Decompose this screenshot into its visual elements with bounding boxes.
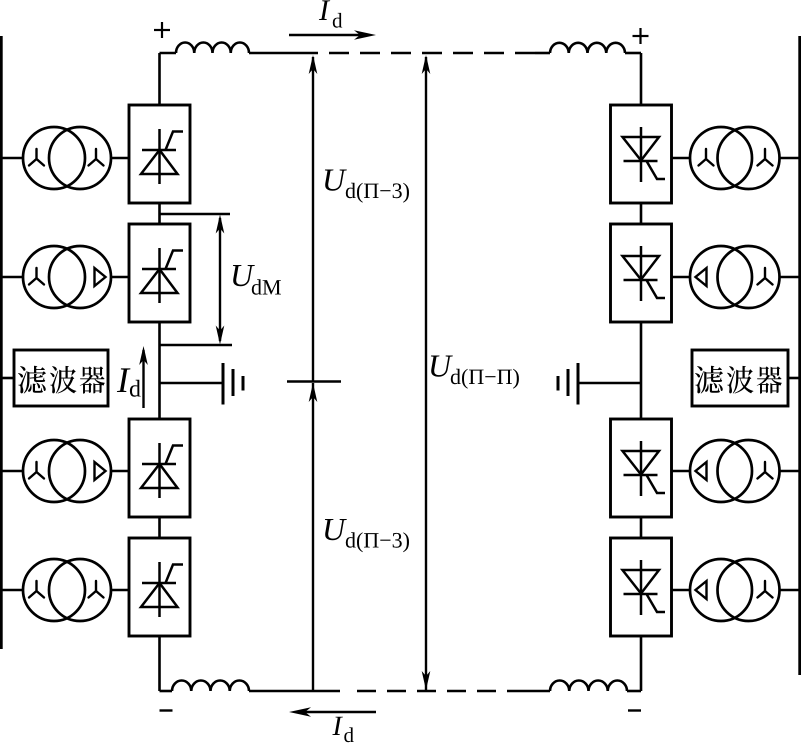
wire: V2 to V3 (neutral point) <box>158 321 161 420</box>
wire: transformer to valve <box>111 276 129 279</box>
transformer T7 <box>690 440 780 502</box>
wire: transformer to valve <box>111 157 129 160</box>
wire: AC bus to transformer <box>0 470 23 473</box>
wire: transformer to AC bus <box>780 157 801 160</box>
wire: V6 to V7 (neutral point) <box>640 321 643 420</box>
DC transmission line (dashed, negative pole) <box>357 690 526 693</box>
wire: transformer to valve <box>111 589 129 592</box>
wire: top DC pole line (solid, right) <box>535 52 550 55</box>
wire: transformer to AC bus <box>780 470 801 473</box>
wire: AC bus to transformer <box>0 276 23 279</box>
plus polarity mark (top left) <box>154 29 170 31</box>
converter valve V2 (thyristor, 12-pulse bridge) <box>129 224 190 322</box>
wire: V7 to V8 <box>640 516 643 539</box>
dimension extension line (V2 bottom) <box>160 344 233 346</box>
smoothing reactor L3 (bottom left) <box>172 680 249 691</box>
label UdM <box>233 265 281 295</box>
voltage dimension line Ud(П-3) lower segment <box>312 383 314 691</box>
label Id (bottom) <box>332 717 353 743</box>
converter valve V6 (thyristor, 12-pulse bridge) <box>611 224 672 322</box>
wire: valve to transformer <box>672 276 690 279</box>
wire: V1 to V2 <box>158 202 161 225</box>
wire: top left corner <box>160 52 177 55</box>
wire: V4 down to negative pole <box>158 635 161 691</box>
AC filter box (right) 滤波器 <box>692 350 788 406</box>
wire: valve to transformer <box>672 589 690 592</box>
minus polarity mark (bottom right) <box>628 709 641 711</box>
voltage dimension line Ud(П-П) pole-to-pole <box>425 57 427 690</box>
label Ud(П-3) upper <box>325 170 409 203</box>
wire: AC bus to left filter <box>0 377 14 380</box>
converter valve V5 (thyristor, 12-pulse bridge) <box>611 105 672 203</box>
transformer T1 <box>23 127 111 189</box>
wire: AC bus to transformer <box>0 157 23 160</box>
transformer T8 <box>690 559 780 621</box>
DC transmission line (dashed, positive pole) <box>329 52 535 55</box>
wire: bottom DC pole line (solid, left) <box>249 690 340 693</box>
wire: V8 down to negative pole <box>640 635 643 691</box>
wire: transformer to valve <box>111 470 129 473</box>
converter valve V8 (thyristor, 12-pulse bridge) <box>611 538 672 636</box>
smoothing reactor L4 (bottom right) <box>550 680 627 691</box>
transformer T3 <box>23 440 111 502</box>
current arrow Id (top, rightward) <box>289 34 362 37</box>
converter valve V4 (thyristor, 12-pulse bridge) <box>129 538 190 636</box>
plus polarity mark (top right) <box>633 35 649 37</box>
minus polarity mark (bottom left) <box>160 709 173 711</box>
transformer T6 <box>690 246 780 308</box>
wire: transformer to AC bus <box>780 276 801 279</box>
current arrow Id (upward, left) <box>142 350 144 408</box>
AC bus (left) <box>0 36 3 649</box>
label Ud(П-3) lower <box>325 519 409 552</box>
label Id (top) <box>319 0 342 27</box>
ground electrode (left) <box>160 363 244 405</box>
wire: V5 to V6 <box>640 202 643 225</box>
wire: top DC pole line (solid, left) <box>249 52 318 55</box>
converter valve V3 (thyristor, 12-pulse bridge) <box>129 419 190 517</box>
wire: AC bus to transformer <box>0 589 23 592</box>
label Id with up arrow (left neutral) <box>117 368 141 396</box>
wire: V3 to V4 <box>158 516 161 539</box>
label Ud(П-П) <box>431 356 519 389</box>
AC bus (right) <box>798 36 801 675</box>
voltage dimension arrow UdM <box>219 218 221 341</box>
wire: reactor to right pole corner <box>625 52 641 55</box>
voltage dimension line Ud(П-3) upper segment <box>312 57 314 382</box>
transformer T4 <box>23 559 111 621</box>
wire: transformer to AC bus <box>780 589 801 592</box>
current arrow Id (bottom, leftward) <box>303 711 376 714</box>
wire: pole bus down to valve V1 <box>158 53 161 106</box>
smoothing reactor L1 (top left) <box>176 42 249 53</box>
transformer T5 <box>690 127 780 189</box>
wire: right filter to AC bus <box>788 377 801 380</box>
wire: valve to transformer <box>672 157 690 160</box>
wire: bottom left corner <box>160 690 173 693</box>
converter valve V1 (thyristor, 12-pulse bridge) <box>129 105 190 203</box>
wire: bottom right corner <box>627 690 641 693</box>
ground electrode (right) <box>558 363 641 405</box>
wire: bottom DC pole line (solid, right) <box>526 690 550 693</box>
smoothing reactor L2 (top right) <box>550 43 625 53</box>
transformer T2 <box>23 246 111 308</box>
dimension extension line (V2 top) <box>160 213 231 215</box>
wire: pole bus down to valve V5 <box>640 53 643 106</box>
AC filter box (left) 滤波器 <box>14 350 108 406</box>
wire: valve to transformer <box>672 470 690 473</box>
midpoint tick on Ud(П-3) line <box>287 380 341 382</box>
converter valve V7 (thyristor, 12-pulse bridge) <box>611 419 672 517</box>
